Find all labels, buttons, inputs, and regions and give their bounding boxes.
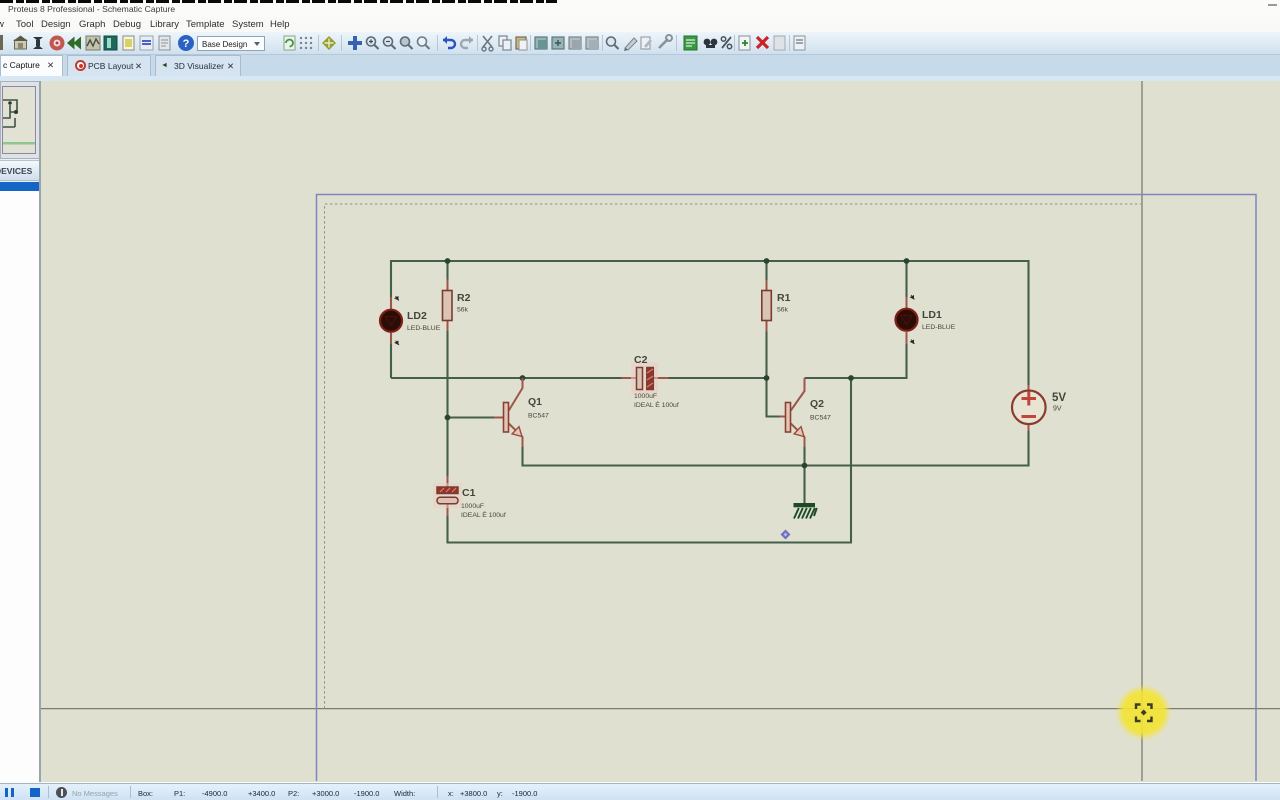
- teal chip icon: [104, 36, 117, 50]
- traffic icon: [33, 37, 43, 41]
- svg-text:C2: C2: [634, 354, 648, 366]
- wire LD1 top: [905, 261, 907, 297]
- node junction VCC/R1: [764, 258, 770, 264]
- transistor Q2 labels: [810, 398, 831, 422]
- svg-text:Q1: Q1: [528, 396, 542, 408]
- red rosette icon: [50, 36, 65, 51]
- cut icon: [483, 36, 492, 47]
- wire R1 branch vertical: [765, 261, 767, 378]
- svg-text:Q2: Q2: [810, 398, 824, 410]
- design explorer icon: [794, 36, 805, 50]
- pan icon: [348, 36, 362, 50]
- resistor R1: [762, 280, 772, 332]
- node junction Q2 collector cross-couple: [848, 375, 854, 381]
- wire C2 right to base node R1: [669, 377, 767, 379]
- sheet boundary grey vertical line: [1141, 81, 1143, 781]
- LED LD1 labels: [922, 309, 956, 331]
- svg-text:1000uF: 1000uF: [634, 393, 657, 400]
- help icon: [178, 35, 194, 51]
- resistor R2: [443, 280, 453, 332]
- document yellow icon: [123, 36, 134, 50]
- wire left collector rail (LD2 bottom to C2): [391, 377, 622, 379]
- toolbar: [0, 32, 1280, 55]
- capacitor C2 labels: [634, 354, 679, 409]
- remove sheet icon: [757, 37, 768, 48]
- wire Q2 base elbow: [767, 378, 780, 417]
- origin marker blue diamond: [781, 530, 791, 540]
- title bar: [0, 0, 1280, 17]
- wire ground stub: [803, 466, 805, 504]
- node junction Q2 emitter/ground: [802, 463, 808, 469]
- wrench icon: [659, 39, 668, 48]
- ground symbol: [794, 503, 817, 519]
- cursor yellow highlight: [1116, 685, 1172, 741]
- netlist green icon: [684, 36, 697, 50]
- battery BAT1 5V: [1012, 385, 1046, 431]
- grid dots icon: [300, 37, 312, 49]
- block delete icon: [586, 37, 598, 49]
- sheet template blue border frame: [317, 195, 1257, 782]
- LED LD2 labels: [407, 310, 441, 332]
- wire emitter ground rail: [523, 431, 1029, 466]
- transistor Q1: [494, 378, 523, 447]
- LED LD2: [380, 296, 402, 345]
- blue lines icon: [140, 36, 153, 50]
- refresh sheet icon: [284, 36, 295, 50]
- node junction VCC/LD1: [904, 258, 910, 264]
- menu bar: [0, 17, 1280, 32]
- sheet boundary grey horizontal line: [41, 708, 1280, 710]
- origin icon: [322, 36, 336, 50]
- zoom area icon: [418, 37, 427, 46]
- tab bar: [0, 55, 1280, 76]
- wire VCC top rail: [391, 261, 1029, 385]
- resistor R1 labels: [777, 292, 791, 314]
- svg-text:LD2: LD2: [407, 310, 427, 322]
- wire Q2 emitter drop: [803, 447, 805, 466]
- svg-text:BC547: BC547: [810, 415, 831, 422]
- svg-text:R2: R2: [457, 292, 471, 304]
- magnifier edit icon: [607, 37, 616, 46]
- zoom all icon: [401, 37, 410, 46]
- capacitor C1 labels: [461, 487, 506, 519]
- svg-text:1000uF: 1000uF: [461, 503, 484, 510]
- wire Q1 base horizontal: [448, 416, 495, 418]
- wire C1 bottom rail to Q2 collector node: [448, 378, 852, 543]
- waveform icon: [86, 36, 100, 50]
- transistor Q2: [780, 378, 805, 447]
- undo icon: [443, 40, 455, 48]
- svg-text:5V: 5V: [1052, 392, 1066, 404]
- green rewind icon: [74, 37, 82, 50]
- svg-text:IDEAL É 100uf: IDEAL É 100uf: [461, 510, 506, 519]
- goto sheet icon: [774, 36, 785, 50]
- property icon: [722, 37, 731, 48]
- redo icon: [461, 40, 473, 48]
- wire R2 branch vertical: [446, 261, 448, 476]
- svg-text:9V: 9V: [1053, 406, 1062, 413]
- pencil icon: [625, 38, 637, 50]
- block move icon: [552, 37, 564, 49]
- block rotate icon: [569, 37, 581, 49]
- svg-text:C1: C1: [462, 487, 476, 499]
- node junction R1/C2/Q2 base: [764, 375, 770, 381]
- new sheet icon: [739, 36, 750, 50]
- document grey icon: [159, 36, 170, 50]
- svg-text:IDEAL É 100uf: IDEAL É 100uf: [634, 400, 679, 409]
- resistor R2 labels: [457, 292, 471, 314]
- svg-text:LED-BLUE: LED-BLUE: [922, 324, 956, 331]
- zoom out icon: [384, 37, 393, 46]
- node junction VCC/R2: [445, 258, 451, 264]
- svg-text:LED-BLUE: LED-BLUE: [407, 325, 441, 332]
- svg-text:R1: R1: [777, 292, 791, 304]
- capacitor C2: [622, 362, 669, 395]
- paste icon: [516, 37, 526, 49]
- transistor Q1 labels: [528, 396, 549, 420]
- home icon: [15, 40, 27, 49]
- capacitor C1: [433, 476, 462, 516]
- node junction Q1 collector: [520, 375, 526, 381]
- svg-text:LD1: LD1: [922, 309, 942, 321]
- search icon: [704, 39, 711, 46]
- left sidebar: [0, 81, 41, 782]
- block copy icon: [535, 37, 547, 49]
- sheet inner dashed margin border: [325, 204, 1142, 709]
- status bar: [0, 783, 1280, 800]
- pencil sheet icon: [641, 37, 650, 49]
- svg-text:56k: 56k: [777, 307, 789, 314]
- svg-text:BC547: BC547: [528, 413, 549, 420]
- copy icon: [499, 36, 507, 46]
- wire Q2 collector to LD1 bottom: [805, 344, 907, 378]
- node junction Q1 base/C1: [445, 415, 451, 421]
- battery labels 5V 9V: [1052, 392, 1066, 413]
- LED LD1: [896, 295, 918, 344]
- zoom in icon: [367, 37, 376, 46]
- svg-text:56k: 56k: [457, 307, 469, 314]
